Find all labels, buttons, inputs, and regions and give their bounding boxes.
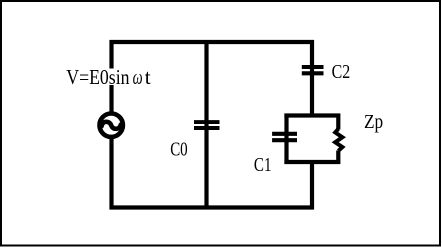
label Zp bbox=[364, 111, 383, 133]
wire: parallel box right upper stub bbox=[336, 114, 340, 130]
wire: parallel box left (through C1) bbox=[284, 114, 288, 165]
wire: parallel box top bbox=[284, 113, 340, 117]
svg-text:ω: ω bbox=[133, 65, 143, 89]
wire: left vertical bbox=[109, 40, 113, 210]
wire: parallel box bottom bbox=[284, 160, 340, 164]
capacitor C1 bbox=[272, 134, 297, 140]
label C0 bbox=[170, 138, 188, 160]
AC source V1 bbox=[100, 114, 123, 137]
wire: bottom horizontal bbox=[110, 205, 314, 209]
wire: right vertical upper (through C2) bbox=[310, 40, 314, 117]
svg-text:V=E0sin: V=E0sin bbox=[66, 65, 129, 89]
label C1 bbox=[254, 154, 272, 176]
wire: middle vertical bbox=[204, 40, 208, 210]
impedance Zp zigzag bbox=[335, 129, 342, 151]
capacitor C2 bbox=[302, 67, 324, 73]
svg-text:C0: C0 bbox=[170, 138, 188, 160]
svg-text:Zp: Zp bbox=[364, 111, 383, 133]
svg-text:t: t bbox=[145, 65, 151, 89]
label V=E0sin wt (white backing over wire) bbox=[64, 65, 153, 89]
label C2 bbox=[332, 61, 351, 83]
wire: top horizontal bbox=[110, 40, 314, 44]
capacitor C0 bbox=[194, 122, 220, 128]
wire: parallel box right lower stub bbox=[336, 151, 340, 165]
svg-text:C1: C1 bbox=[254, 154, 272, 176]
svg-text:C2: C2 bbox=[332, 61, 351, 83]
wire: right vertical lower bbox=[310, 161, 314, 210]
